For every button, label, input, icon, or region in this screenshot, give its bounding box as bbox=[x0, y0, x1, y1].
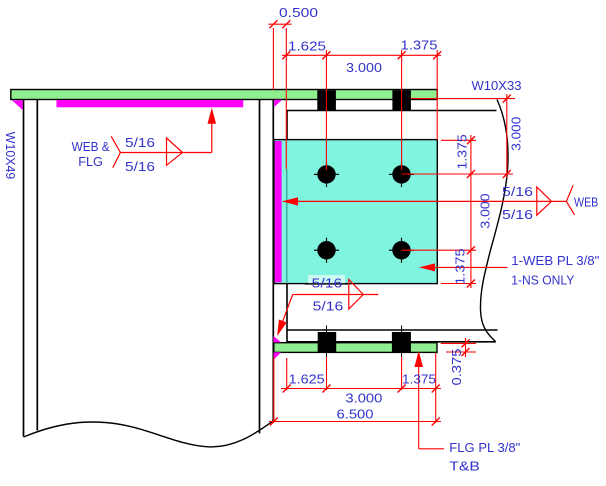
svg-text:W10X33: W10X33 bbox=[472, 78, 522, 93]
dim line 0.375 vertical bbox=[465, 338, 467, 357]
svg-text:1.625: 1.625 bbox=[289, 372, 325, 387]
bolt B1 crosshair bbox=[314, 162, 339, 187]
weld symbol WEB&FLG tail fork bbox=[111, 136, 120, 167]
ext bolt row 1 bbox=[402, 173, 514, 175]
weld strip under cap plate (magenta) bbox=[57, 100, 244, 107]
beam break line arc bbox=[480, 100, 508, 342]
svg-text:5/16: 5/16 bbox=[125, 159, 155, 174]
weld symbol bottom arrowhead bbox=[277, 320, 287, 337]
leader 1-WEB PL arrowhead bbox=[419, 263, 435, 271]
svg-text:WEB: WEB bbox=[574, 195, 598, 210]
dim line bottom 1.625/3.000/1.375 bbox=[281, 388, 441, 390]
svg-text:3.000: 3.000 bbox=[345, 391, 382, 406]
beam W10X33 bottom flange top face line bbox=[287, 329, 498, 331]
leader FLG PL arrowhead up bbox=[414, 351, 423, 367]
svg-text:0.375: 0.375 bbox=[449, 348, 464, 385]
weld symbol bottom reference line bbox=[293, 294, 379, 296]
weld symbol WEB&FLG leader vertical bbox=[211, 122, 213, 153]
svg-text:FLG: FLG bbox=[78, 154, 103, 169]
svg-text:5/16: 5/16 bbox=[125, 135, 155, 150]
bolt B4 crosshair bbox=[389, 238, 414, 263]
red dimension and extension lines bbox=[269, 24, 516, 423]
weld symbol bottom leader diagonal bbox=[281, 295, 293, 327]
ext 0.375 bottom bbox=[446, 351, 476, 353]
svg-text:FLG PL 3/8": FLG PL 3/8" bbox=[449, 440, 520, 455]
top flange bolt square 2 bbox=[392, 90, 411, 110]
weld symbol WEB reference line bbox=[296, 200, 566, 202]
top flange plate (green cap plate) bbox=[11, 90, 437, 100]
svg-text:6.500: 6.500 bbox=[337, 407, 374, 422]
dim line B 3.000 vertical bbox=[506, 94, 508, 178]
bolt B2 crosshair bbox=[389, 162, 414, 187]
weld symbol bottom fillet triangle bbox=[349, 280, 364, 310]
ext line beam end top bbox=[285, 28, 287, 169]
ext plate right bottom bbox=[435, 353, 437, 423]
weld symbol WEB&FLG reference line bbox=[120, 152, 211, 154]
bolt B2 circle bbox=[392, 165, 410, 183]
bolt B3 crosshair bbox=[314, 238, 339, 263]
svg-text:1.375: 1.375 bbox=[453, 248, 468, 284]
ext beam end bottom bbox=[286, 358, 288, 390]
beam W10X33 top flange underside line bbox=[287, 110, 497, 112]
weld fillet triangle bottom plate above bbox=[273, 336, 281, 342]
bottom flange plate (green) bbox=[274, 343, 437, 353]
weld symbol WEB&FLG arrowhead up bbox=[208, 108, 217, 124]
bottom flange bolt square 1 bbox=[318, 332, 337, 352]
ext 0.375 top bbox=[441, 342, 476, 344]
beam W10X33 end line bbox=[286, 110, 288, 342]
ext bolt col 2 top bbox=[401, 50, 403, 170]
leader FLG PL vertical bbox=[418, 365, 420, 449]
ext line col face top bbox=[272, 28, 274, 90]
weld symbol WEB tail fork bbox=[566, 185, 574, 215]
ext col face bottom bbox=[273, 357, 275, 424]
beam end hidden line over plate (teal) bbox=[286, 169, 288, 282]
svg-text:W10X49: W10X49 bbox=[3, 132, 18, 180]
bolt B3 circle bbox=[317, 241, 335, 259]
svg-text:1.625: 1.625 bbox=[288, 39, 326, 54]
svg-text:1.375: 1.375 bbox=[401, 38, 438, 53]
web plate (cyan) bbox=[274, 140, 437, 284]
svg-text:T&B: T&B bbox=[449, 459, 480, 474]
leader FLG PL horizontal bbox=[419, 448, 444, 450]
weld symbol WEB&FLG fillet triangle bbox=[167, 138, 183, 165]
ext plate top right bbox=[441, 139, 476, 141]
svg-text:3.000: 3.000 bbox=[508, 117, 523, 151]
svg-text:1-WEB PL 3/8": 1-WEB PL 3/8" bbox=[511, 253, 599, 268]
svg-text:1.375: 1.375 bbox=[455, 134, 470, 169]
bolt B4 circle bbox=[392, 241, 410, 259]
column W10X49 right flange inner line bbox=[259, 100, 261, 434]
top flange bolt square 1 bbox=[317, 90, 336, 110]
leader 1-WEB PL line bbox=[433, 266, 508, 268]
svg-text:5/16: 5/16 bbox=[313, 299, 344, 314]
svg-text:WEB &: WEB & bbox=[72, 139, 110, 154]
svg-text:1-NS ONLY: 1-NS ONLY bbox=[511, 272, 574, 287]
weld fillet triangle cap plate left bbox=[12, 100, 23, 110]
weld symbol WEB fillet triangle bbox=[537, 187, 552, 215]
beam W10X33 underside line bbox=[287, 341, 496, 343]
weld fillet triangle cap plate right bbox=[274, 100, 282, 107]
column W10X49 left flange inner line bbox=[36, 100, 38, 431]
column W10X49 left flange outer line bbox=[23, 100, 25, 437]
ext bolt col 1 bottom bbox=[326, 357, 328, 390]
svg-text:3.000: 3.000 bbox=[478, 193, 493, 228]
column break wavy line bbox=[24, 421, 274, 447]
svg-text:5/16: 5/16 bbox=[502, 184, 533, 199]
bottom flange bolt square 2 bbox=[392, 332, 411, 352]
ext bolt col 1 top bbox=[325, 50, 327, 170]
bolt B1 circle bbox=[317, 165, 335, 183]
weld fillet triangle bottom plate below bbox=[274, 352, 282, 359]
svg-text:5/16: 5/16 bbox=[502, 207, 533, 222]
weld symbol WEB arrowhead left bbox=[282, 197, 298, 205]
ext beam top level bbox=[411, 98, 515, 100]
svg-text:3.000: 3.000 bbox=[346, 60, 382, 75]
weld strip on web plate left (magenta) bbox=[275, 141, 282, 282]
weld symbol bottom plate border redraw bbox=[305, 283, 348, 285]
bottom bolt 2 centerline black bbox=[401, 326, 403, 358]
column W10X49 right flange outer line bbox=[272, 100, 274, 421]
dim line A vertical bbox=[470, 135, 472, 288]
dim line top 1.625/3.000/1.375 bbox=[282, 54, 441, 56]
svg-text:5/16: 5/16 bbox=[312, 276, 343, 291]
ext bolt col 2 bottom bbox=[401, 357, 403, 390]
svg-text:0.500: 0.500 bbox=[279, 5, 318, 20]
svg-text:1.375: 1.375 bbox=[402, 372, 436, 387]
bottom bolt 1 centerline black bbox=[326, 326, 328, 358]
dim 0.500 line bbox=[269, 23, 292, 25]
weld symbol bottom text mask bbox=[308, 275, 345, 287]
ext plate right top bbox=[436, 50, 438, 140]
red tick slashes bbox=[269, 20, 510, 425]
ext plate bottom right bbox=[441, 283, 476, 285]
ext bolt row 2 bbox=[402, 249, 477, 251]
dim line 6.500 bbox=[269, 421, 441, 423]
